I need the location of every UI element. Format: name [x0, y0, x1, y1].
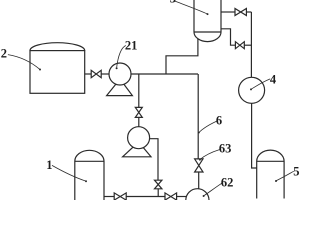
leader 63 dot: [199, 159, 201, 161]
tank 2 dome: [30, 43, 85, 51]
leader 21 dot: [116, 67, 118, 69]
leader 3: [175, 1, 208, 14]
circle 4: [239, 77, 265, 103]
leader 3 dot: [207, 13, 209, 15]
svg-text:4: 4: [270, 73, 277, 87]
leader 5 dot: [275, 180, 277, 182]
wire valve T2 to main: [244, 44, 251, 46]
mid pump outlet: [150, 139, 158, 181]
vessel 5: [257, 150, 284, 198]
leader 63: [200, 150, 220, 160]
leader 4 dot: [250, 88, 252, 90]
vessel 5 seam: [257, 160, 284, 162]
right main vertical: [250, 12, 252, 77]
wire circle4 to vessel5: [252, 103, 257, 168]
bottom pipe vessel1 to valveA: [104, 196, 114, 198]
takeoff 2 wire: [221, 29, 235, 45]
wire valve to pump 21: [101, 73, 109, 75]
svg-text:63: 63: [219, 142, 232, 156]
wire v3 to bottom pipe: [157, 189, 159, 197]
pipe pump21 discharge: [131, 73, 198, 75]
svg-text:5: 5: [293, 164, 299, 178]
leader 5: [276, 171, 294, 180]
column 3 seam: [194, 31, 221, 33]
valve v3 (vertical): [155, 180, 162, 189]
pump 21 circle: [109, 63, 131, 85]
branch down to mid valve: [138, 74, 140, 107]
valve (tank2 outlet): [91, 70, 101, 77]
bottom pipe valveA to valveB: [126, 196, 165, 198]
leader 2 dot: [39, 69, 41, 71]
bottom pipe valveB to pump62: [177, 196, 187, 198]
valve T1: [235, 9, 246, 16]
valve A (bottom): [114, 193, 126, 200]
valve 63 (vertical): [195, 159, 203, 172]
leader 62 dot: [203, 195, 205, 197]
mid pump base triangle: [123, 142, 151, 157]
svg-text:2: 2: [1, 47, 7, 61]
mid pump circle: [128, 127, 150, 149]
wire valve to mid pump: [138, 117, 140, 126]
svg-text:6: 6: [216, 114, 222, 128]
vessel 1: [75, 150, 104, 200]
wire valve T1 to main: [246, 11, 251, 13]
vessel 1 seam: [75, 160, 104, 162]
riser elbow to column 3: [166, 39, 198, 74]
column 3 bottom dome: [194, 32, 221, 42]
leader 21: [117, 46, 126, 68]
line 6 vertical: [197, 74, 199, 159]
leader 2: [8, 55, 40, 70]
leader 4: [251, 79, 270, 89]
leader 1 dot: [85, 180, 87, 182]
tank 2 body: [30, 51, 85, 94]
column 3 body: [194, 0, 221, 32]
takeoff 1 wire: [221, 11, 235, 13]
valve mid (vertical): [135, 107, 142, 117]
svg-text:1: 1: [46, 158, 52, 172]
valve B (bottom): [165, 193, 177, 200]
leader 1: [52, 165, 86, 181]
leader 6: [199, 121, 217, 132]
svg-text:62: 62: [221, 176, 234, 190]
leader 6 dot: [198, 132, 200, 134]
leader 62: [204, 183, 222, 196]
wire valve63 to pump 62: [198, 172, 200, 189]
pump 21 base triangle: [107, 79, 133, 96]
wire tank2 to valve: [85, 73, 92, 75]
valve T2: [235, 42, 244, 49]
svg-text:21: 21: [125, 39, 137, 53]
pump 62 circle: [186, 189, 209, 212]
